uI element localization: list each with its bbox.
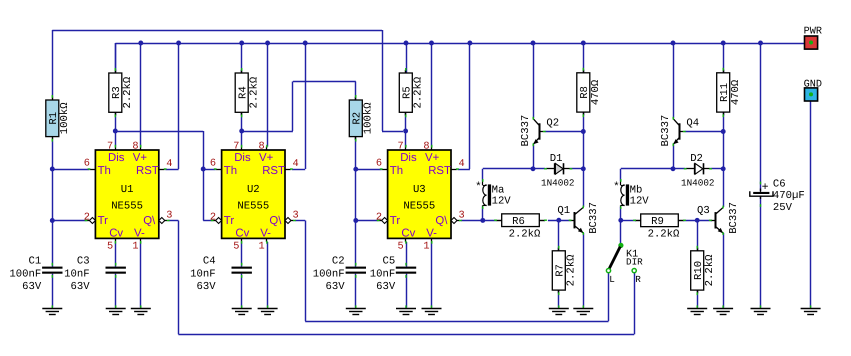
wire Tr junction to U1 pin 2 bbox=[52, 220, 86, 222]
wire U2 pin 7 stub riser bbox=[241, 131, 243, 147]
wire U1 pin 4 to rail bbox=[165, 43, 178, 170]
svg-text:1N4002: 1N4002 bbox=[681, 178, 714, 189]
svg-text:C3: C3 bbox=[77, 256, 90, 268]
wire Th junction down to Tr junction bbox=[52, 169, 54, 221]
svg-text:2.2kΩ: 2.2kΩ bbox=[565, 254, 577, 286]
svg-text:RST: RST bbox=[262, 165, 285, 177]
svg-text:7: 7 bbox=[398, 141, 404, 153]
wire motor node to D2 anode bbox=[673, 168, 685, 170]
resistor R6 2.2k bbox=[494, 214, 547, 241]
resistor R3 2.2k bbox=[109, 68, 134, 117]
svg-text:V-: V- bbox=[134, 228, 145, 240]
wire R3 top from rail bbox=[115, 43, 117, 73]
wire D2 cathode node down to Q3 collector bbox=[723, 169, 725, 207]
ground C2 bbox=[346, 305, 366, 314]
ground Q3 emitter bbox=[713, 305, 733, 314]
svg-text:2.2kΩ: 2.2kΩ bbox=[509, 229, 541, 241]
svg-text:RST: RST bbox=[428, 165, 451, 177]
svg-text:*: * bbox=[613, 181, 620, 193]
svg-text:C6: C6 bbox=[773, 178, 786, 190]
svg-text:63V: 63V bbox=[71, 281, 91, 293]
transistor Q4 BC337 bbox=[660, 115, 699, 147]
op-amp U2 NE555 bbox=[210, 141, 299, 253]
svg-text:8: 8 bbox=[423, 141, 429, 153]
svg-text:C5: C5 bbox=[382, 256, 395, 268]
wire C1 bottom to ground bbox=[52, 274, 54, 308]
svg-text:Tr: Tr bbox=[224, 215, 235, 227]
svg-text:Dis: Dis bbox=[108, 152, 125, 164]
wire C3 bottom to ground bbox=[115, 274, 117, 308]
ground U3 V- bbox=[422, 305, 442, 314]
wire U3 Th junction down to Tr junction bbox=[355, 169, 357, 220]
svg-text:R6: R6 bbox=[512, 216, 525, 228]
wire R10 top from base node bbox=[697, 220, 699, 251]
wire GND terminal to ground bbox=[810, 101, 812, 308]
wire switch node down to K1 common bbox=[620, 220, 622, 243]
svg-text:R: R bbox=[635, 274, 641, 285]
svg-text:1N4002: 1N4002 bbox=[541, 178, 574, 189]
svg-text:5: 5 bbox=[107, 241, 113, 253]
svg-text:4: 4 bbox=[166, 158, 172, 170]
wire U1 pin 1 to ground bbox=[140, 242, 142, 308]
svg-text:BC337: BC337 bbox=[660, 115, 672, 147]
svg-text:2.2kΩ: 2.2kΩ bbox=[122, 76, 134, 108]
motor Ma 12V bbox=[475, 179, 511, 209]
svg-text:1: 1 bbox=[132, 241, 138, 253]
svg-text:C2: C2 bbox=[332, 256, 345, 268]
transistor Q1 BC337 bbox=[557, 202, 600, 235]
wire U3 pin 3 to R6 bbox=[461, 220, 496, 222]
wire junction dots bbox=[50, 41, 763, 223]
wire C4 bottom to ground bbox=[241, 274, 243, 308]
transistor Q3 BC337 bbox=[697, 202, 740, 235]
ground C4 bbox=[232, 305, 252, 314]
svg-text:470µF: 470µF bbox=[773, 190, 805, 202]
svg-text:2: 2 bbox=[84, 212, 90, 224]
svg-text:Tr: Tr bbox=[390, 215, 401, 227]
capacitor C2 bbox=[313, 256, 366, 294]
transistor Q2 BC337 bbox=[520, 115, 559, 147]
svg-text:Cv: Cv bbox=[235, 228, 249, 240]
wire R7 bottom to ground bbox=[558, 289, 560, 308]
op-amp U3 NE555 bbox=[376, 141, 465, 253]
svg-text:R9: R9 bbox=[651, 216, 664, 228]
wire R5 top from rail bbox=[406, 43, 408, 73]
svg-text:Q4: Q4 bbox=[686, 117, 699, 129]
wire Q2 emitter down to motor node bbox=[533, 144, 535, 169]
wire Th junction to U1 pin 6 bbox=[52, 169, 89, 171]
wire Mb bottom to switch node bbox=[620, 207, 622, 221]
svg-text:Q\: Q\ bbox=[269, 215, 282, 227]
svg-text:6: 6 bbox=[376, 158, 382, 170]
wire R10 bottom to ground bbox=[697, 289, 699, 308]
svg-text:5: 5 bbox=[233, 241, 239, 253]
wire switch node to R9 left bbox=[621, 220, 636, 222]
svg-text:L: L bbox=[609, 274, 615, 285]
svg-text:8: 8 bbox=[259, 141, 265, 153]
ground R7 bbox=[549, 305, 569, 314]
svg-text:25V: 25V bbox=[773, 202, 793, 214]
wire base node down to D2 cathode node bbox=[723, 132, 725, 169]
svg-text:DIR: DIR bbox=[626, 256, 643, 267]
capacitor C4 bbox=[190, 256, 252, 294]
svg-text:U3: U3 bbox=[413, 184, 426, 196]
svg-text:Q\: Q\ bbox=[435, 215, 448, 227]
svg-text:V+: V+ bbox=[259, 152, 274, 164]
wire R3 bottom to Dis junction bbox=[115, 113, 117, 132]
svg-text:V-: V- bbox=[426, 228, 437, 240]
wire motor node to D1 anode bbox=[533, 168, 545, 170]
svg-text:+: + bbox=[762, 181, 769, 194]
wire R4 top from rail bbox=[241, 43, 243, 73]
wire R6 right to Q1 base node bbox=[548, 220, 571, 222]
ground C3 bbox=[106, 305, 126, 314]
svg-text:V-: V- bbox=[260, 228, 271, 240]
wire U1 pin 5 to C3 bbox=[115, 242, 117, 267]
svg-text:Q3: Q3 bbox=[697, 205, 710, 217]
wire C6 top from rail bbox=[760, 43, 762, 191]
svg-text:63V: 63V bbox=[326, 281, 346, 293]
ground GND terminal bbox=[801, 305, 821, 314]
wire R11 bottom to base node bbox=[723, 112, 725, 132]
wire C2 bottom to ground bbox=[355, 274, 357, 308]
svg-text:PWR: PWR bbox=[804, 26, 822, 37]
svg-text:D1: D1 bbox=[550, 153, 563, 165]
svg-text:U1: U1 bbox=[121, 184, 134, 196]
capacitor C3 bbox=[64, 256, 126, 294]
svg-text:RST: RST bbox=[136, 165, 159, 177]
resistor R7 2.2k bbox=[552, 246, 577, 295]
diode D2 1N4002 bbox=[681, 153, 714, 189]
wire U2 Th junction down to U2 Tr bbox=[203, 169, 212, 221]
wire R2 bottom to U3 Th junction bbox=[355, 137, 357, 169]
wire U1 pin 3 to bottom feedback run bbox=[168, 221, 634, 335]
ground U1 V- bbox=[131, 305, 151, 314]
svg-text:6: 6 bbox=[84, 158, 90, 170]
resistor R9 2.2k bbox=[633, 214, 686, 241]
svg-text:Dis: Dis bbox=[234, 152, 251, 164]
capacitor C6 470uF electrolytic bbox=[750, 178, 805, 213]
resistor R5 2.2k bbox=[399, 68, 424, 117]
svg-text:2: 2 bbox=[210, 212, 216, 224]
svg-text:V+: V+ bbox=[425, 152, 440, 164]
ground R10 bbox=[687, 305, 707, 314]
svg-text:100kΩ: 100kΩ bbox=[59, 102, 71, 134]
svg-text:3: 3 bbox=[166, 210, 172, 222]
wire R9 right to Q3 base node bbox=[684, 220, 712, 222]
svg-text:Cv: Cv bbox=[401, 228, 415, 240]
svg-text:6: 6 bbox=[210, 158, 216, 170]
svg-text:470Ω: 470Ω bbox=[590, 79, 602, 105]
svg-text:GND: GND bbox=[804, 79, 822, 90]
wire Q2 collector to rail bbox=[533, 43, 535, 118]
svg-text:Cv: Cv bbox=[109, 228, 123, 240]
wire R11 top to rail bbox=[723, 43, 725, 73]
resistor R11 470 bbox=[717, 68, 742, 117]
wire Ma bottom to pin3 node bbox=[482, 207, 484, 221]
svg-text:BC337: BC337 bbox=[588, 202, 600, 234]
svg-text:NE555: NE555 bbox=[237, 201, 269, 213]
op-amp U1 NE555 bbox=[84, 141, 173, 253]
switch K1 DIR bbox=[606, 243, 643, 285]
svg-text:Q1: Q1 bbox=[557, 205, 570, 217]
wire R8 top to rail bbox=[583, 43, 585, 73]
svg-text:D2: D2 bbox=[690, 153, 703, 165]
resistor R2 100k bbox=[349, 95, 374, 142]
svg-text:NE555: NE555 bbox=[111, 201, 143, 213]
wire U3 Tr junction to U3 pin 2 bbox=[356, 220, 379, 222]
svg-text:Th: Th bbox=[390, 165, 403, 177]
resistor R1 100k bbox=[46, 95, 71, 142]
capacitor C1 bbox=[9, 256, 62, 294]
wire from R1 top to U3 Dis junction bbox=[52, 30, 403, 132]
wire Tr junction down to C1 bbox=[52, 221, 54, 267]
wire Q3 emitter to ground bbox=[723, 233, 725, 308]
motor Mb 12V bbox=[613, 179, 649, 209]
wire D1 cathode to node bbox=[570, 168, 583, 170]
svg-text:Dis: Dis bbox=[400, 152, 417, 164]
wire U2 pin 8 to rail bbox=[267, 43, 269, 147]
ground U2 V- bbox=[258, 305, 278, 314]
svg-text:12V: 12V bbox=[630, 195, 650, 207]
wire Q4 collector to rail bbox=[673, 43, 675, 118]
wire U1 Dis junction to U2 Th bbox=[115, 131, 215, 170]
svg-text:C1: C1 bbox=[28, 256, 41, 268]
ground C5 bbox=[396, 305, 416, 314]
svg-text:BC337: BC337 bbox=[520, 115, 532, 147]
svg-text:100kΩ: 100kΩ bbox=[362, 102, 374, 134]
svg-text:Tr: Tr bbox=[98, 215, 109, 227]
svg-text:NE555: NE555 bbox=[403, 201, 435, 213]
wire U3 pin 1 to ground bbox=[431, 242, 433, 308]
wire Q4 emitter down to motor node bbox=[673, 144, 675, 169]
svg-text:1: 1 bbox=[259, 241, 265, 253]
svg-text:Q2: Q2 bbox=[546, 117, 559, 129]
wire base node down to D1 cathode node bbox=[583, 132, 585, 169]
svg-text:7: 7 bbox=[107, 141, 113, 153]
svg-text:U2: U2 bbox=[247, 184, 260, 196]
diode D1 1N4002 bbox=[541, 153, 574, 189]
resistor R4 2.2k bbox=[235, 68, 260, 117]
svg-text:10nF: 10nF bbox=[64, 268, 89, 280]
wire U3 pin 7 stub riser bbox=[405, 131, 407, 147]
ground C6 bbox=[751, 305, 771, 314]
wire Q1 emitter to ground bbox=[583, 233, 585, 308]
svg-text:3: 3 bbox=[459, 210, 465, 222]
wire U3 pin 8 to rail bbox=[431, 43, 433, 147]
wire R7 top from base node bbox=[558, 220, 560, 251]
wire U3 pin 5 to C5 bbox=[406, 242, 408, 267]
svg-text:63V: 63V bbox=[22, 281, 42, 293]
ground C1 bbox=[42, 305, 62, 314]
svg-text:2.2kΩ: 2.2kΩ bbox=[704, 254, 716, 286]
svg-text:2.2kΩ: 2.2kΩ bbox=[648, 229, 680, 241]
wire U2 pin 4 to rail bbox=[292, 43, 306, 170]
svg-text:V+: V+ bbox=[133, 152, 148, 164]
wire U3 pin 4 to rail bbox=[458, 43, 470, 170]
svg-text:100nF: 100nF bbox=[9, 268, 41, 280]
wire U3 Tr junction down to C2 bbox=[355, 221, 357, 267]
wire U1 pin 7 stub riser bbox=[115, 131, 117, 147]
wire Q4 base to R11 bottom node bbox=[684, 131, 723, 133]
wire R8 bottom to base node bbox=[583, 112, 585, 132]
terminal PWR bbox=[804, 26, 822, 49]
wire D2 cathode to node bbox=[710, 168, 723, 170]
svg-text:8: 8 bbox=[132, 141, 138, 153]
resistor R10 2.2k bbox=[691, 246, 716, 295]
svg-text:3: 3 bbox=[293, 210, 299, 222]
svg-text:1: 1 bbox=[423, 241, 429, 253]
wire Q2 base to R8 bottom node bbox=[544, 131, 583, 133]
terminal GND bbox=[804, 79, 822, 101]
svg-text:Q\: Q\ bbox=[143, 215, 156, 227]
svg-text:63V: 63V bbox=[376, 281, 396, 293]
wire R4 bottom to U2 Dis junction bbox=[241, 113, 243, 132]
wire R1 bottom to Th junction bbox=[52, 140, 54, 169]
svg-text:10nF: 10nF bbox=[190, 268, 215, 280]
wire U2 pin 5 to C4 bbox=[241, 242, 243, 267]
wire U2 Dis junction to R2 top bbox=[242, 82, 356, 132]
svg-text:BC337: BC337 bbox=[728, 202, 740, 234]
svg-text:100nF: 100nF bbox=[313, 268, 345, 280]
ground Q1 emitter bbox=[573, 305, 593, 314]
wire R5 bottom to U3 Dis junction bbox=[405, 113, 407, 132]
svg-text:2.2kΩ: 2.2kΩ bbox=[248, 76, 260, 108]
resistor R8 470 bbox=[577, 68, 602, 117]
wire main V+ rail bbox=[115, 43, 804, 70]
svg-text:7: 7 bbox=[233, 141, 239, 153]
wire U1 pin 8 to rail bbox=[140, 43, 142, 147]
svg-text:4: 4 bbox=[459, 158, 465, 170]
wire motor node to Mb top bbox=[621, 169, 674, 182]
svg-text:C4: C4 bbox=[203, 256, 216, 268]
svg-text:Th: Th bbox=[98, 165, 111, 177]
svg-text:10nF: 10nF bbox=[370, 268, 395, 280]
svg-text:12V: 12V bbox=[492, 195, 512, 207]
wire U3 Th junction to U3 pin 6 bbox=[356, 169, 382, 171]
wire U2 pin 1 to ground bbox=[267, 242, 269, 308]
wire C6 bottom to ground bbox=[760, 197, 762, 308]
wire D1 cathode node down to Q1 collector bbox=[583, 169, 585, 207]
capacitor C5 bbox=[370, 256, 416, 294]
svg-text:63V: 63V bbox=[197, 281, 217, 293]
svg-text:4: 4 bbox=[293, 158, 299, 170]
wire C5 bottom to ground bbox=[406, 274, 408, 308]
svg-text:Th: Th bbox=[224, 165, 237, 177]
wire motor node to Ma top bbox=[483, 169, 534, 182]
wire U2 pin 3 to K1 pole L bbox=[295, 221, 609, 322]
svg-text:*: * bbox=[475, 181, 482, 193]
svg-text:2.2kΩ: 2.2kΩ bbox=[412, 76, 424, 108]
svg-text:470Ω: 470Ω bbox=[730, 79, 742, 105]
svg-text:5: 5 bbox=[398, 241, 404, 253]
svg-text:2: 2 bbox=[376, 212, 382, 224]
